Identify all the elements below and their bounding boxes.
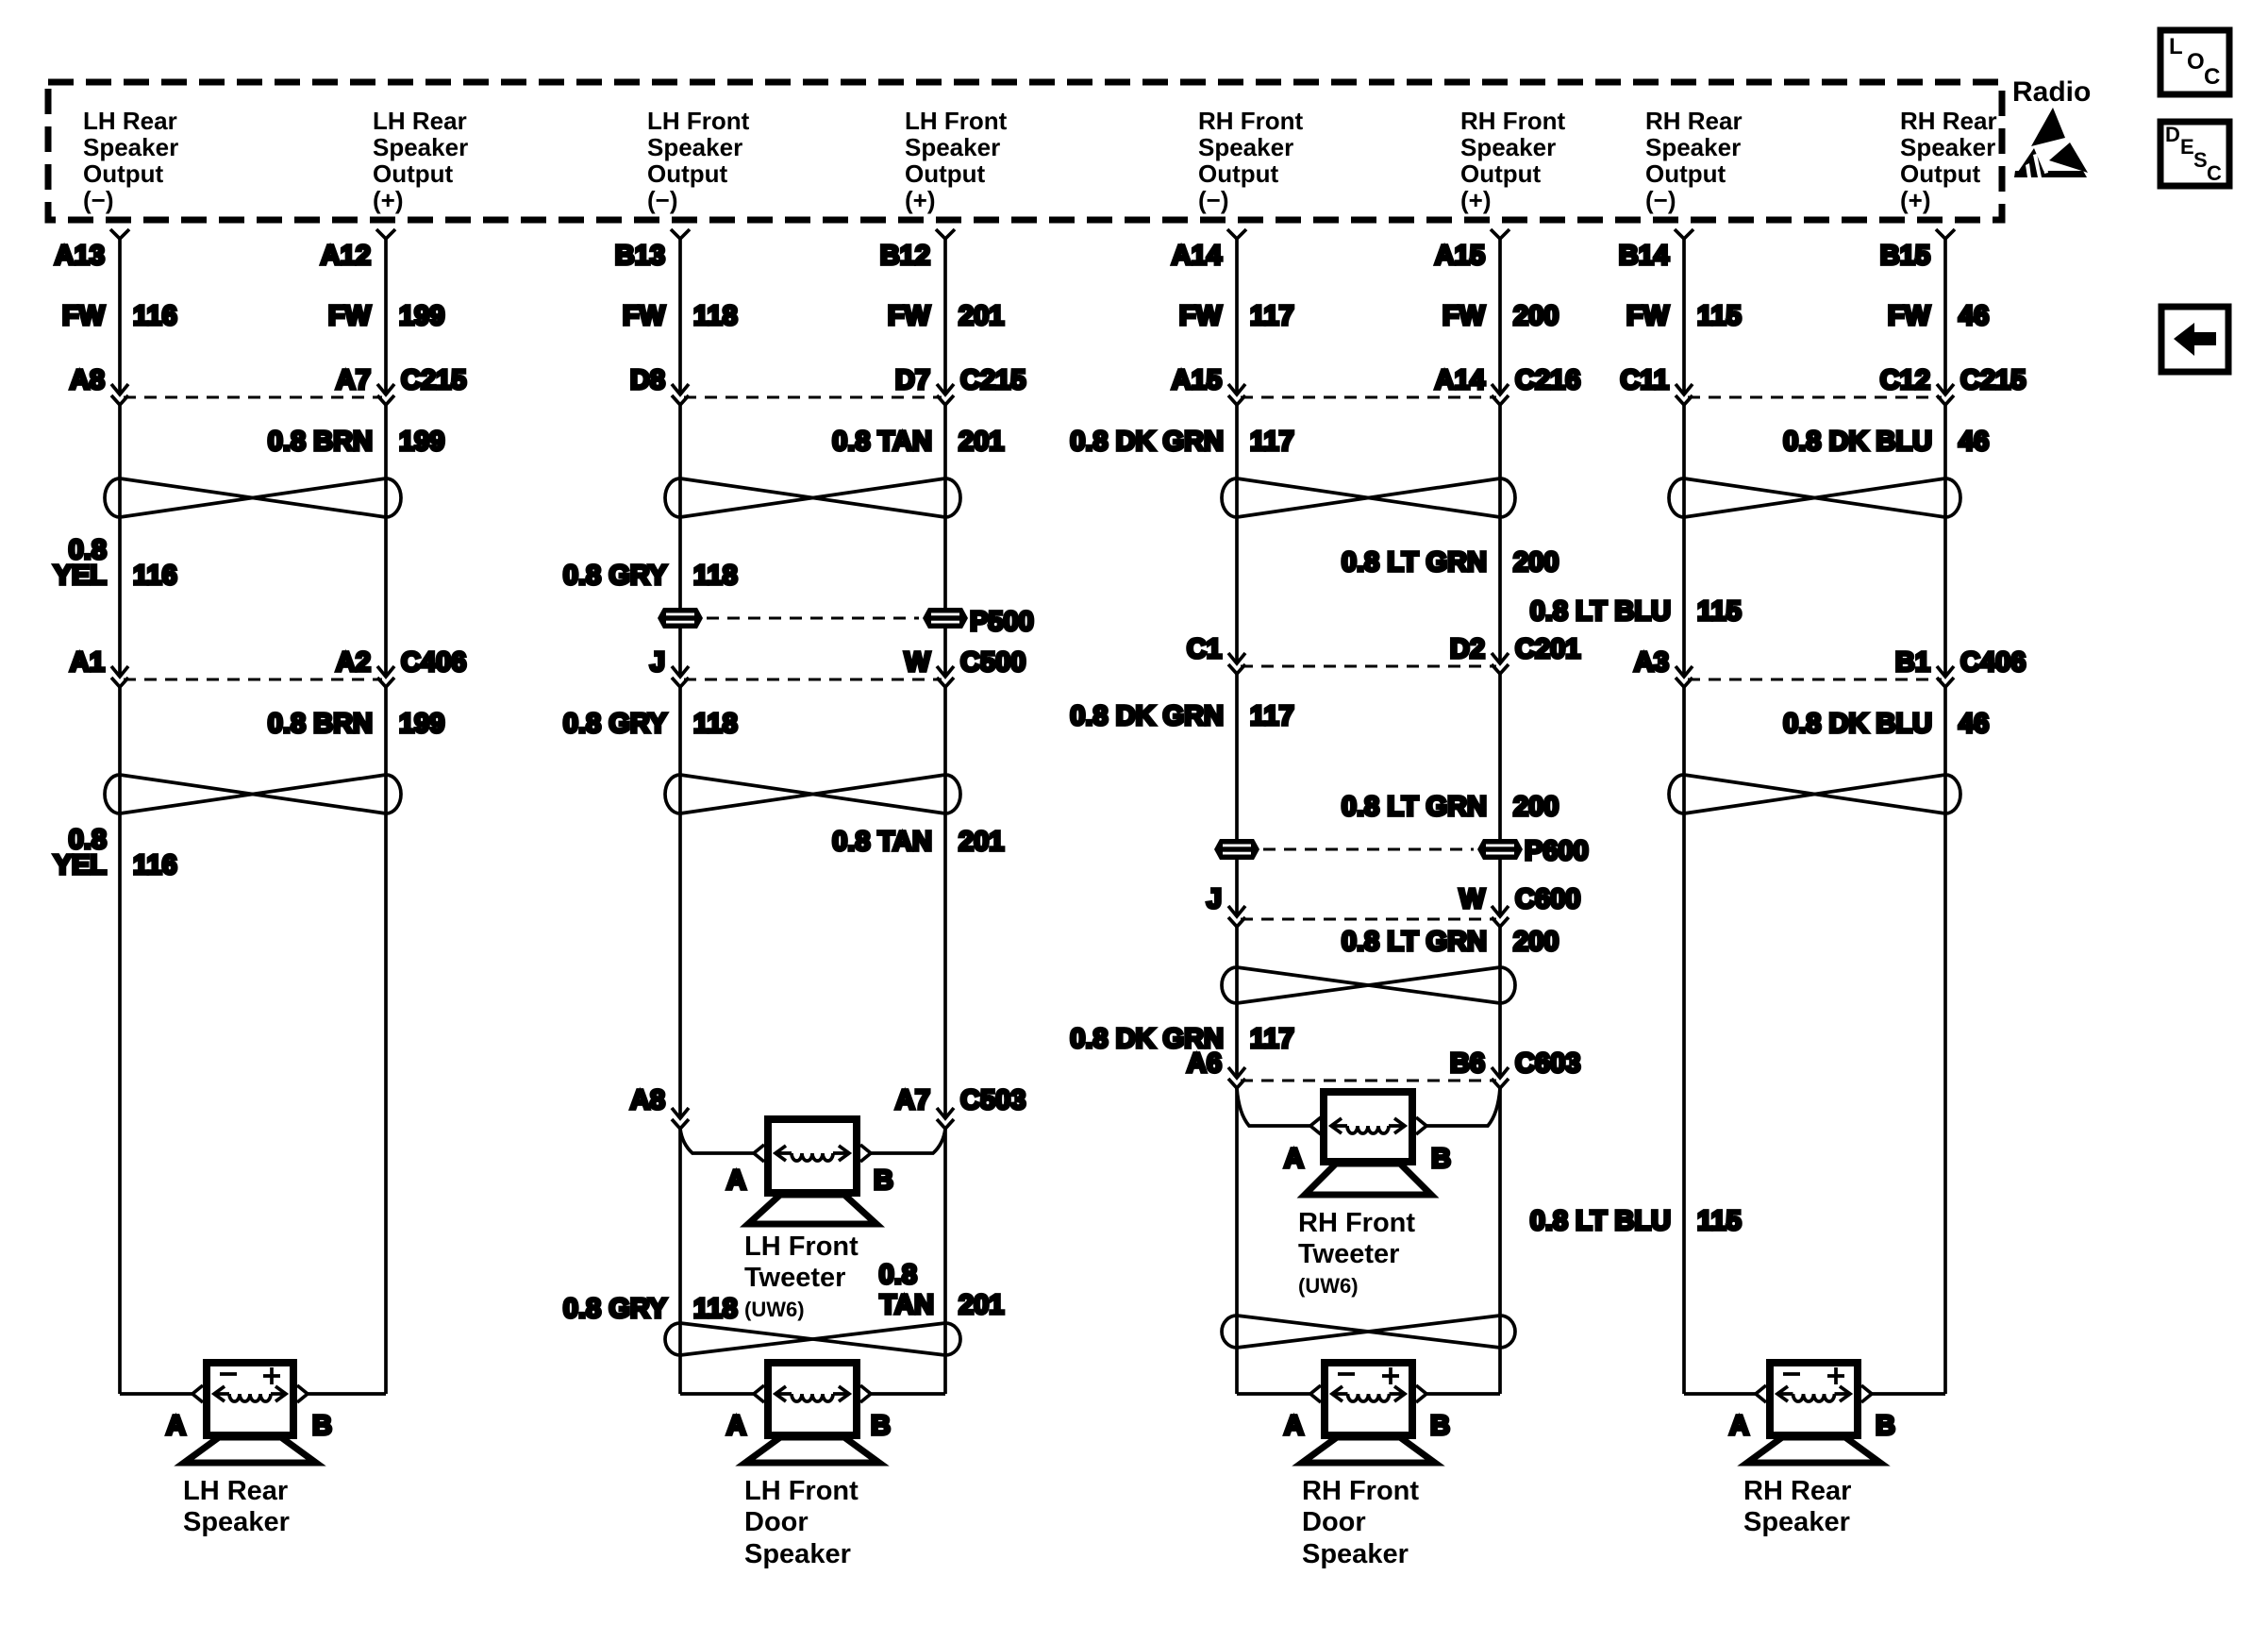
- left-arrow legend box: [2161, 307, 2228, 372]
- svg-text:117: 117: [1250, 427, 1294, 457]
- svg-text:Output: Output: [1198, 159, 1279, 188]
- twisted pair 118/201 third: [665, 1323, 960, 1355]
- svg-text:46: 46: [1959, 709, 1989, 739]
- svg-text:RH Rear: RH Rear: [1900, 107, 1997, 135]
- grommet P500 right: [923, 608, 968, 629]
- svg-text:Output: Output: [905, 159, 986, 188]
- radio output terminal A14: [1227, 229, 1246, 239]
- LH rear speaker: [184, 1363, 316, 1463]
- wire segment: [1682, 687, 1686, 1394]
- wire segment: [943, 687, 947, 1117]
- svg-text:0.8 TAN: 0.8 TAN: [832, 827, 932, 857]
- svg-text:201: 201: [959, 427, 1004, 457]
- wire segment: [943, 405, 947, 677]
- twisted pair 118/201 second: [665, 775, 960, 813]
- svg-text:199: 199: [399, 301, 444, 331]
- svg-text:0.8 GRY: 0.8 GRY: [563, 561, 667, 591]
- svg-text:LH Rear: LH Rear: [373, 107, 467, 135]
- connector C215 crossing (LH front): [672, 384, 954, 405]
- svg-text:(+): (+): [905, 186, 936, 214]
- P500 dashed link: [707, 617, 919, 620]
- svg-text:0.8 LT GRN: 0.8 LT GRN: [1342, 792, 1487, 822]
- radio output terminal B14: [1675, 229, 1693, 239]
- wire LH rear speaker B lead: [308, 1392, 386, 1396]
- wire LH front door speaker B lead: [871, 1392, 945, 1396]
- connector C201 crossing (RH front): [1228, 653, 1509, 674]
- svg-text:A15: A15: [1435, 241, 1485, 271]
- svg-text:RH Front: RH Front: [1460, 107, 1566, 135]
- svg-text:LH Front: LH Front: [905, 107, 1008, 135]
- svg-text:Door: Door: [1302, 1507, 1366, 1537]
- wire segment: [1498, 674, 1502, 915]
- svg-text:116: 116: [133, 850, 177, 880]
- wire to LH tweeter A: [680, 1129, 754, 1153]
- LH front door speaker: [745, 1363, 879, 1463]
- radio output terminal A15: [1491, 229, 1509, 239]
- wire segment: [1498, 1088, 1502, 1394]
- svg-text:C215: C215: [1960, 365, 2026, 395]
- grommet P600 left: [1214, 839, 1259, 860]
- svg-text:A12: A12: [321, 241, 371, 271]
- radio pin label: RH Rear Speaker Output (+): [1900, 107, 1997, 214]
- svg-text:A8: A8: [70, 365, 105, 395]
- LH front door speaker name: [744, 1476, 859, 1569]
- svg-text:RH Front: RH Front: [1302, 1476, 1419, 1506]
- connector C500 crossing (LH front): [672, 666, 954, 687]
- svg-text:(+): (+): [1900, 186, 1931, 214]
- wire LH rear speaker A lead: [120, 1392, 192, 1396]
- svg-text:YEL: YEL: [54, 850, 107, 880]
- svg-text:A: A: [1284, 1411, 1304, 1441]
- svg-text:C406: C406: [1960, 647, 2026, 678]
- svg-text:200: 200: [1513, 547, 1559, 578]
- radio dashed outline box: [48, 82, 2002, 220]
- svg-text:(+): (+): [1460, 186, 1492, 214]
- svg-text:Output: Output: [1645, 159, 1726, 188]
- wire LH front plus (radio to C215): [943, 239, 947, 394]
- svg-text:C12: C12: [1880, 365, 1930, 395]
- svg-text:0.8 BRN: 0.8 BRN: [268, 709, 373, 739]
- svg-text:C11: C11: [1620, 365, 1669, 395]
- svg-text:200: 200: [1513, 792, 1559, 822]
- svg-text:A8: A8: [630, 1085, 665, 1115]
- wire LH front minus (radio to C215): [678, 239, 682, 394]
- wire LH front door speaker A lead: [680, 1392, 754, 1396]
- svg-text:C215: C215: [401, 365, 466, 395]
- radio output terminal B13: [671, 229, 690, 239]
- wire segment: [118, 687, 122, 1394]
- wire RH rear minus (radio to C215): [1682, 239, 1686, 394]
- svg-text:Speaker: Speaker: [373, 133, 468, 161]
- wire segment: [678, 1129, 682, 1394]
- grommet P500 left: [658, 608, 703, 629]
- svg-text:C406: C406: [401, 647, 466, 678]
- svg-text:0.8 TAN: 0.8 TAN: [832, 427, 932, 457]
- svg-text:Speaker: Speaker: [647, 133, 742, 161]
- svg-text:(−): (−): [83, 186, 114, 214]
- svg-text:C: C: [2207, 161, 2222, 185]
- svg-text:(UW6): (UW6): [744, 1298, 805, 1321]
- svg-text:LH Rear: LH Rear: [83, 107, 177, 135]
- svg-text:200: 200: [1513, 927, 1559, 957]
- wire RH front minus (radio to C216): [1235, 239, 1239, 394]
- svg-text:D8: D8: [630, 365, 665, 395]
- svg-text:0.8: 0.8: [879, 1260, 917, 1290]
- RH front door speaker name: [1302, 1476, 1419, 1569]
- svg-text:Output: Output: [373, 159, 454, 188]
- svg-text:J: J: [1207, 884, 1222, 914]
- wire segment: [118, 405, 122, 677]
- svg-text:P500: P500: [970, 607, 1034, 637]
- svg-text:B: B: [874, 1165, 893, 1196]
- svg-text:117: 117: [1250, 701, 1294, 731]
- svg-text:0.8 LT GRN: 0.8 LT GRN: [1342, 927, 1487, 957]
- svg-text:A7: A7: [895, 1085, 930, 1115]
- wire segment: [1235, 1088, 1239, 1394]
- svg-text:Speaker: Speaker: [744, 1539, 851, 1569]
- svg-text:(−): (−): [1645, 186, 1676, 214]
- svg-text:FW: FW: [62, 301, 106, 331]
- svg-text:0.8 LT GRN: 0.8 LT GRN: [1342, 547, 1487, 578]
- svg-text:C201: C201: [1515, 634, 1580, 664]
- svg-text:B: B: [1430, 1411, 1450, 1441]
- svg-text:Tweeter: Tweeter: [1298, 1239, 1399, 1269]
- svg-text:B15: B15: [1880, 241, 1930, 271]
- connector C215 crossing (LH rear): [111, 384, 394, 405]
- svg-text:RH Rear: RH Rear: [1743, 1476, 1851, 1506]
- svg-text:A: A: [1284, 1144, 1304, 1174]
- wire segment: [943, 1129, 947, 1394]
- svg-text:201: 201: [959, 1290, 1004, 1320]
- svg-text:RH Front: RH Front: [1298, 1208, 1415, 1238]
- svg-text:0.8 DK BLU: 0.8 DK BLU: [1783, 427, 1932, 457]
- svg-text:(−): (−): [1198, 186, 1229, 214]
- svg-text:A14: A14: [1435, 365, 1485, 395]
- wire segment: [384, 405, 388, 677]
- svg-text:A3: A3: [1634, 647, 1669, 678]
- svg-text:A: A: [1729, 1411, 1749, 1441]
- radio pin label: LH Front Speaker Output (&#8722;): [647, 107, 750, 214]
- radio pin label: LH Rear Speaker Output (+): [373, 107, 468, 214]
- svg-text:117: 117: [1250, 1024, 1294, 1054]
- RH front door speaker: [1302, 1363, 1435, 1463]
- svg-text:46: 46: [1959, 301, 1989, 331]
- connector C406 crossing (RH rear): [1676, 666, 1954, 687]
- svg-text:0.8 DK GRN: 0.8 DK GRN: [1070, 701, 1224, 731]
- svg-text:C503: C503: [960, 1085, 1026, 1115]
- svg-text:200: 200: [1513, 301, 1559, 331]
- svg-text:A13: A13: [55, 241, 105, 271]
- wire segment: [1235, 405, 1239, 663]
- svg-text:118: 118: [693, 709, 738, 739]
- connector C406 crossing (LH rear): [111, 666, 394, 687]
- connector C603 crossing: [1228, 1067, 1509, 1088]
- svg-text:Tweeter: Tweeter: [744, 1263, 845, 1293]
- wire RH rear plus (radio to C215): [1943, 239, 1947, 394]
- LH front tweeter name: [744, 1232, 859, 1321]
- grommet P600 right: [1477, 839, 1523, 860]
- radio output terminal B12: [936, 229, 955, 239]
- svg-text:(−): (−): [647, 186, 678, 214]
- RH front tweeter name: [1298, 1208, 1415, 1298]
- svg-text:D: D: [2165, 123, 2180, 146]
- svg-text:118: 118: [693, 561, 738, 591]
- svg-text:B14: B14: [1619, 241, 1669, 271]
- wire RH front door speaker B lead: [1426, 1392, 1500, 1396]
- svg-text:199: 199: [399, 427, 444, 457]
- wire RH rear speaker B lead: [1872, 1392, 1945, 1396]
- svg-text:LH Front: LH Front: [647, 107, 750, 135]
- wire segment: [1498, 405, 1502, 663]
- svg-text:W: W: [1459, 884, 1486, 914]
- twisted pair 115/46 second: [1669, 775, 1960, 813]
- svg-text:C500: C500: [960, 647, 1026, 678]
- svg-text:0.8 LT BLU: 0.8 LT BLU: [1530, 1206, 1671, 1236]
- svg-text:B: B: [1876, 1411, 1895, 1441]
- connector C216 crossing (RH front): [1228, 384, 1509, 405]
- connector C503 crossing: [672, 1108, 954, 1129]
- svg-text:Radio: Radio: [2012, 76, 2091, 108]
- svg-text:(+): (+): [373, 186, 404, 214]
- wire segment: [1235, 674, 1239, 915]
- svg-text:0.8 DK GRN: 0.8 DK GRN: [1070, 427, 1224, 457]
- svg-text:Door: Door: [744, 1507, 809, 1537]
- svg-text:Output: Output: [83, 159, 164, 188]
- svg-text:0.8 BRN: 0.8 BRN: [268, 427, 373, 457]
- radio pin label: LH Rear Speaker Output (&#8722;): [83, 107, 178, 214]
- wire to RH tweeter A: [1237, 1088, 1310, 1126]
- connector C600 crossing: [1228, 906, 1509, 927]
- svg-text:LH Front: LH Front: [744, 1476, 859, 1506]
- DESC legend box: [2160, 122, 2229, 186]
- wire RH rear speaker A lead: [1684, 1392, 1756, 1396]
- svg-text:W: W: [905, 647, 931, 678]
- wire LH rear plus (radio to C215): [384, 239, 388, 394]
- P600 dashed link: [1263, 848, 1474, 851]
- RH front tweeter: [1305, 1092, 1431, 1195]
- svg-text:B: B: [1431, 1144, 1451, 1174]
- svg-text:201: 201: [959, 827, 1004, 857]
- svg-text:Speaker: Speaker: [183, 1507, 290, 1537]
- wire LH rear minus (radio to C215): [118, 239, 122, 394]
- radio output terminal A12: [376, 229, 395, 239]
- svg-text:C600: C600: [1515, 884, 1580, 914]
- svg-text:0.8 GRY: 0.8 GRY: [563, 1294, 667, 1324]
- wire RH front door speaker A lead: [1237, 1392, 1310, 1396]
- svg-text:Speaker: Speaker: [1302, 1539, 1409, 1569]
- svg-text:C215: C215: [960, 365, 1026, 395]
- svg-text:D7: D7: [895, 365, 930, 395]
- radio output terminal B15: [1936, 229, 1955, 239]
- svg-text:TAN: TAN: [880, 1290, 934, 1320]
- twisted pair 118/201: [665, 478, 960, 517]
- svg-text:FW: FW: [1888, 301, 1931, 331]
- svg-text:RH Front: RH Front: [1198, 107, 1304, 135]
- svg-text:LH Rear: LH Rear: [183, 1476, 288, 1506]
- svg-text:115: 115: [1697, 596, 1742, 627]
- svg-text:116: 116: [133, 561, 177, 591]
- twisted pair 116/199 second: [105, 775, 401, 813]
- svg-text:RH Rear: RH Rear: [1645, 107, 1743, 135]
- wire segment: [1498, 927, 1502, 1077]
- wire segment: [678, 687, 682, 1117]
- svg-text:C216: C216: [1515, 365, 1580, 395]
- wire segment: [1943, 687, 1947, 1394]
- radio pin label: LH Front Speaker Output (+): [905, 107, 1008, 214]
- svg-text:E: E: [2180, 135, 2194, 159]
- svg-text:FW: FW: [623, 301, 666, 331]
- svg-text:A6: A6: [1187, 1048, 1222, 1079]
- RH rear speaker: [1747, 1363, 1880, 1463]
- svg-text:Speaker: Speaker: [1645, 133, 1741, 161]
- twisted pair 117/200 second: [1222, 967, 1515, 1003]
- twisted pair 117/200 third: [1222, 1316, 1515, 1348]
- svg-text:B: B: [312, 1411, 332, 1441]
- wire segment: [1235, 927, 1239, 1077]
- radio pin label: RH Front Speaker Output (+): [1460, 107, 1566, 214]
- svg-text:A2: A2: [336, 647, 371, 678]
- svg-text:YEL: YEL: [54, 561, 107, 591]
- svg-text:C1: C1: [1187, 634, 1222, 664]
- svg-text:Speaker: Speaker: [83, 133, 178, 161]
- svg-text:115: 115: [1697, 301, 1742, 331]
- wire to RH tweeter B: [1426, 1088, 1500, 1126]
- svg-text:LH Front: LH Front: [744, 1232, 859, 1262]
- svg-text:0.8 LT BLU: 0.8 LT BLU: [1530, 596, 1671, 627]
- svg-text:116: 116: [133, 301, 177, 331]
- svg-text:Output: Output: [1900, 159, 1981, 188]
- svg-text:Speaker: Speaker: [1743, 1507, 1850, 1537]
- connector C215 crossing (RH rear): [1676, 384, 1954, 405]
- svg-text:0.8 DK BLU: 0.8 DK BLU: [1783, 709, 1932, 739]
- twisted pair 116/199: [105, 478, 401, 517]
- svg-text:118: 118: [693, 1294, 738, 1324]
- LOC legend box: [2160, 30, 2229, 94]
- svg-text:117: 117: [1250, 301, 1294, 331]
- radio pin label: RH Front Speaker Output (&#8722;): [1198, 107, 1304, 214]
- svg-text:A: A: [726, 1165, 746, 1196]
- svg-text:J: J: [650, 647, 665, 678]
- svg-text:B13: B13: [615, 241, 665, 271]
- svg-text:FW: FW: [1443, 301, 1486, 331]
- svg-text:B6: B6: [1450, 1048, 1485, 1079]
- svg-text:A7: A7: [336, 365, 371, 395]
- svg-text:0.8 GRY: 0.8 GRY: [563, 709, 667, 739]
- wire segment: [384, 687, 388, 1394]
- svg-text:Speaker: Speaker: [1900, 133, 1995, 161]
- svg-text:Speaker: Speaker: [1460, 133, 1556, 161]
- svg-text:Output: Output: [1460, 159, 1542, 188]
- radio output terminal A13: [110, 229, 129, 239]
- LH front tweeter: [748, 1119, 876, 1224]
- svg-text:Output: Output: [647, 159, 728, 188]
- svg-text:FW: FW: [888, 301, 931, 331]
- svg-text:Speaker: Speaker: [1198, 133, 1293, 161]
- svg-text:Speaker: Speaker: [905, 133, 1000, 161]
- ESD sensitive device symbol: [2014, 108, 2088, 177]
- wire segment: [1682, 405, 1686, 677]
- RH rear speaker name: [1743, 1476, 1851, 1537]
- svg-text:201: 201: [959, 301, 1004, 331]
- svg-text:A: A: [166, 1411, 186, 1441]
- svg-text:FW: FW: [1626, 301, 1670, 331]
- svg-text:FW: FW: [1179, 301, 1223, 331]
- svg-text:B: B: [871, 1411, 891, 1441]
- svg-text:P600: P600: [1525, 836, 1589, 866]
- svg-text:A14: A14: [1172, 241, 1222, 271]
- twisted pair 117/200: [1222, 478, 1515, 517]
- svg-text:A1: A1: [70, 647, 105, 678]
- wire segment: [1943, 405, 1947, 677]
- svg-text:(UW6): (UW6): [1298, 1274, 1359, 1298]
- wire to LH tweeter B: [871, 1129, 945, 1153]
- wire segment: [678, 405, 682, 677]
- svg-text:B12: B12: [880, 241, 930, 271]
- twisted pair 115/46: [1669, 478, 1960, 517]
- svg-text:118: 118: [693, 301, 738, 331]
- wire RH front plus (radio to C216): [1498, 239, 1502, 394]
- svg-text:46: 46: [1959, 427, 1989, 457]
- svg-text:S: S: [2193, 148, 2208, 172]
- LH rear speaker name: [183, 1476, 290, 1537]
- svg-text:C603: C603: [1515, 1048, 1580, 1079]
- svg-text:199: 199: [399, 709, 444, 739]
- svg-text:O: O: [2187, 49, 2205, 75]
- svg-text:C: C: [2204, 64, 2220, 90]
- svg-text:B1: B1: [1895, 647, 1930, 678]
- svg-text:A15: A15: [1172, 365, 1222, 395]
- svg-text:A: A: [726, 1411, 746, 1441]
- svg-text:FW: FW: [328, 301, 372, 331]
- radio pin label: RH Rear Speaker Output (&#8722;): [1645, 107, 1743, 214]
- svg-text:D2: D2: [1450, 634, 1485, 664]
- svg-text:L: L: [2169, 34, 2183, 59]
- svg-text:115: 115: [1697, 1206, 1742, 1236]
